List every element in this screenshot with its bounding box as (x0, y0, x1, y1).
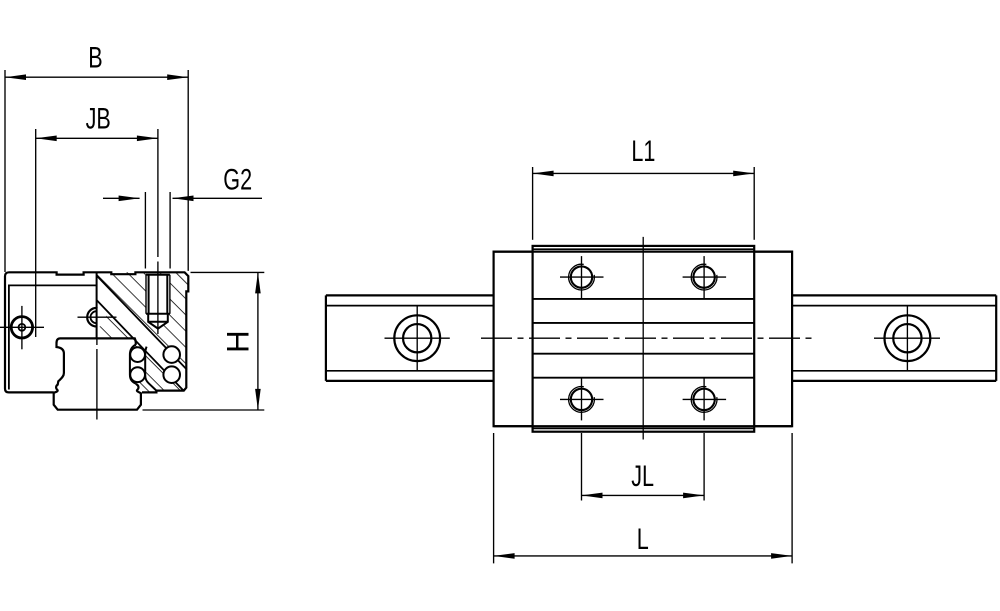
rail cross-section (white fill) (54, 338, 141, 409)
dimension L1 extension lines (532, 167, 534, 240)
cap edge lines across body (494, 251, 792, 253)
ball groove lines left of balls (130, 345, 136, 384)
diagonal raceway band (white) (97, 276, 187, 391)
svg-text:JL: JL (631, 458, 654, 492)
threaded mounting hole G2 (white fill) (146, 275, 170, 329)
center line vertical (642, 237, 644, 440)
body chamfer companion lines (533, 248, 755, 250)
screw hole bottom-right (683, 378, 727, 420)
raceway band upper boundary line (97, 276, 187, 370)
svg-text:G2: G2 (223, 162, 252, 196)
dimension L line (494, 555, 792, 557)
rail chamfer line top (326, 305, 494, 307)
dimension H extension bottom (143, 409, 265, 411)
dimension JB arrows (36, 136, 57, 142)
screw hole bottom-left (560, 378, 604, 420)
dimension JB extension line left (35, 129, 37, 337)
dimension JL arrows (582, 493, 603, 499)
carriage section hatched area (97, 272, 189, 392)
dimension B arrows (5, 74, 26, 80)
ball bearing row upper-left (130, 347, 145, 362)
thread minor diameter lines (148, 275, 150, 314)
dimension H extension top (191, 271, 265, 273)
dimension L1 line (533, 172, 755, 174)
section boundary line (96, 272, 98, 338)
rail bottom edge (326, 380, 494, 382)
screw hole top-left (560, 256, 604, 298)
raceway band lower boundary line (97, 300, 184, 391)
carriage inner top line (9, 284, 97, 286)
return ball upper-right (163, 346, 180, 363)
carriage body outline (533, 246, 755, 432)
rail mounting hole right (885, 315, 931, 361)
rail right end (995, 295, 997, 381)
thread major diameter lines (145, 275, 147, 314)
svg-text:L: L (637, 521, 649, 555)
nipple inner arc (91, 311, 97, 323)
rail left end (325, 295, 327, 381)
carriage inner left edge line (8, 285, 10, 390)
dimension G2 leader lines (103, 197, 140, 199)
dimension L extension lines (493, 433, 495, 563)
carriage end caps outline (494, 252, 792, 427)
dimension JL line (582, 494, 705, 496)
rail top edge (326, 294, 494, 296)
dimension G2 extension ticks (144, 192, 146, 269)
drill cone shoulder line (148, 321, 168, 323)
dimension H line (257, 272, 259, 410)
carriage block outline (5, 272, 188, 392)
dimension B extension line right (187, 70, 189, 271)
rail chamfer line bottom (326, 370, 494, 372)
center dash-dot line horizontal (481, 337, 812, 339)
rail mounting hole left (394, 315, 440, 361)
svg-text:H: H (219, 330, 255, 353)
dimension L1 arrows (533, 171, 554, 177)
hole top line (146, 274, 170, 276)
return ball lower-right (163, 366, 180, 383)
dimension G2 arrows (119, 196, 140, 202)
svg-text:B: B (88, 40, 102, 74)
nipple outer arc (87, 308, 96, 327)
nipple crosshair vertical (21, 306, 23, 349)
nipple crosshair (78, 316, 117, 318)
dimension L arrows (494, 553, 515, 559)
body inner lines (533, 298, 755, 300)
nipple crosshair horizontal (0, 326, 44, 328)
dimension B line (5, 76, 188, 78)
thread hole centerline (157, 129, 159, 257)
drill hole below thread (148, 314, 168, 329)
svg-text:L1: L1 (631, 133, 655, 167)
thread bottom line (146, 313, 170, 315)
dimension H arrows (255, 272, 261, 293)
grease nipple left side (11, 317, 32, 338)
rail outline stroke (54, 338, 141, 409)
ball pocket white region (131, 347, 145, 383)
screw hole top-right (683, 256, 727, 298)
dimension B extension line left (4, 70, 6, 272)
dimension JL extension lines (581, 433, 583, 501)
grease nipple half-mark at section plane (white) (87, 307, 107, 327)
ball groove lines right of balls (145, 347, 156, 391)
dimension JB line (36, 137, 158, 139)
svg-text:JB: JB (86, 101, 111, 135)
rail centerline (96, 338, 98, 345)
ball bearing row lower-left (130, 367, 145, 382)
